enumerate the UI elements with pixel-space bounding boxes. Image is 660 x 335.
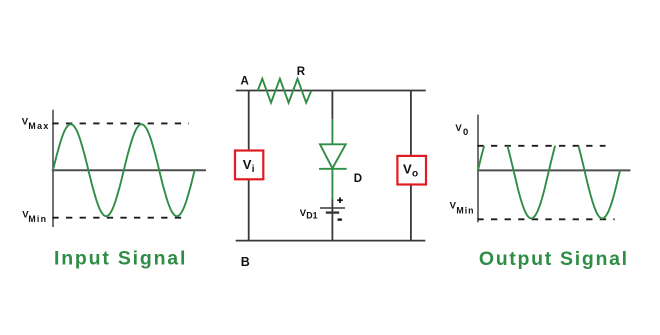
svg-text:Input Signal: Input Signal [54, 248, 187, 270]
svg-text:V: V [455, 123, 462, 134]
svg-text:R: R [297, 66, 306, 78]
svg-text:0: 0 [463, 127, 468, 138]
svg-text:Output Signal: Output Signal [479, 248, 629, 270]
svg-text:V: V [403, 162, 412, 177]
svg-text:V: V [243, 157, 252, 172]
svg-text:D: D [354, 173, 362, 185]
svg-text:Max: Max [28, 121, 49, 131]
svg-text:Min: Min [456, 206, 474, 216]
svg-text:o: o [412, 169, 418, 180]
svg-text:Min: Min [28, 214, 47, 224]
svg-text:B: B [241, 255, 250, 269]
svg-text:A: A [241, 75, 249, 87]
svg-text:i: i [252, 164, 255, 175]
svg-text:D1: D1 [306, 211, 317, 221]
